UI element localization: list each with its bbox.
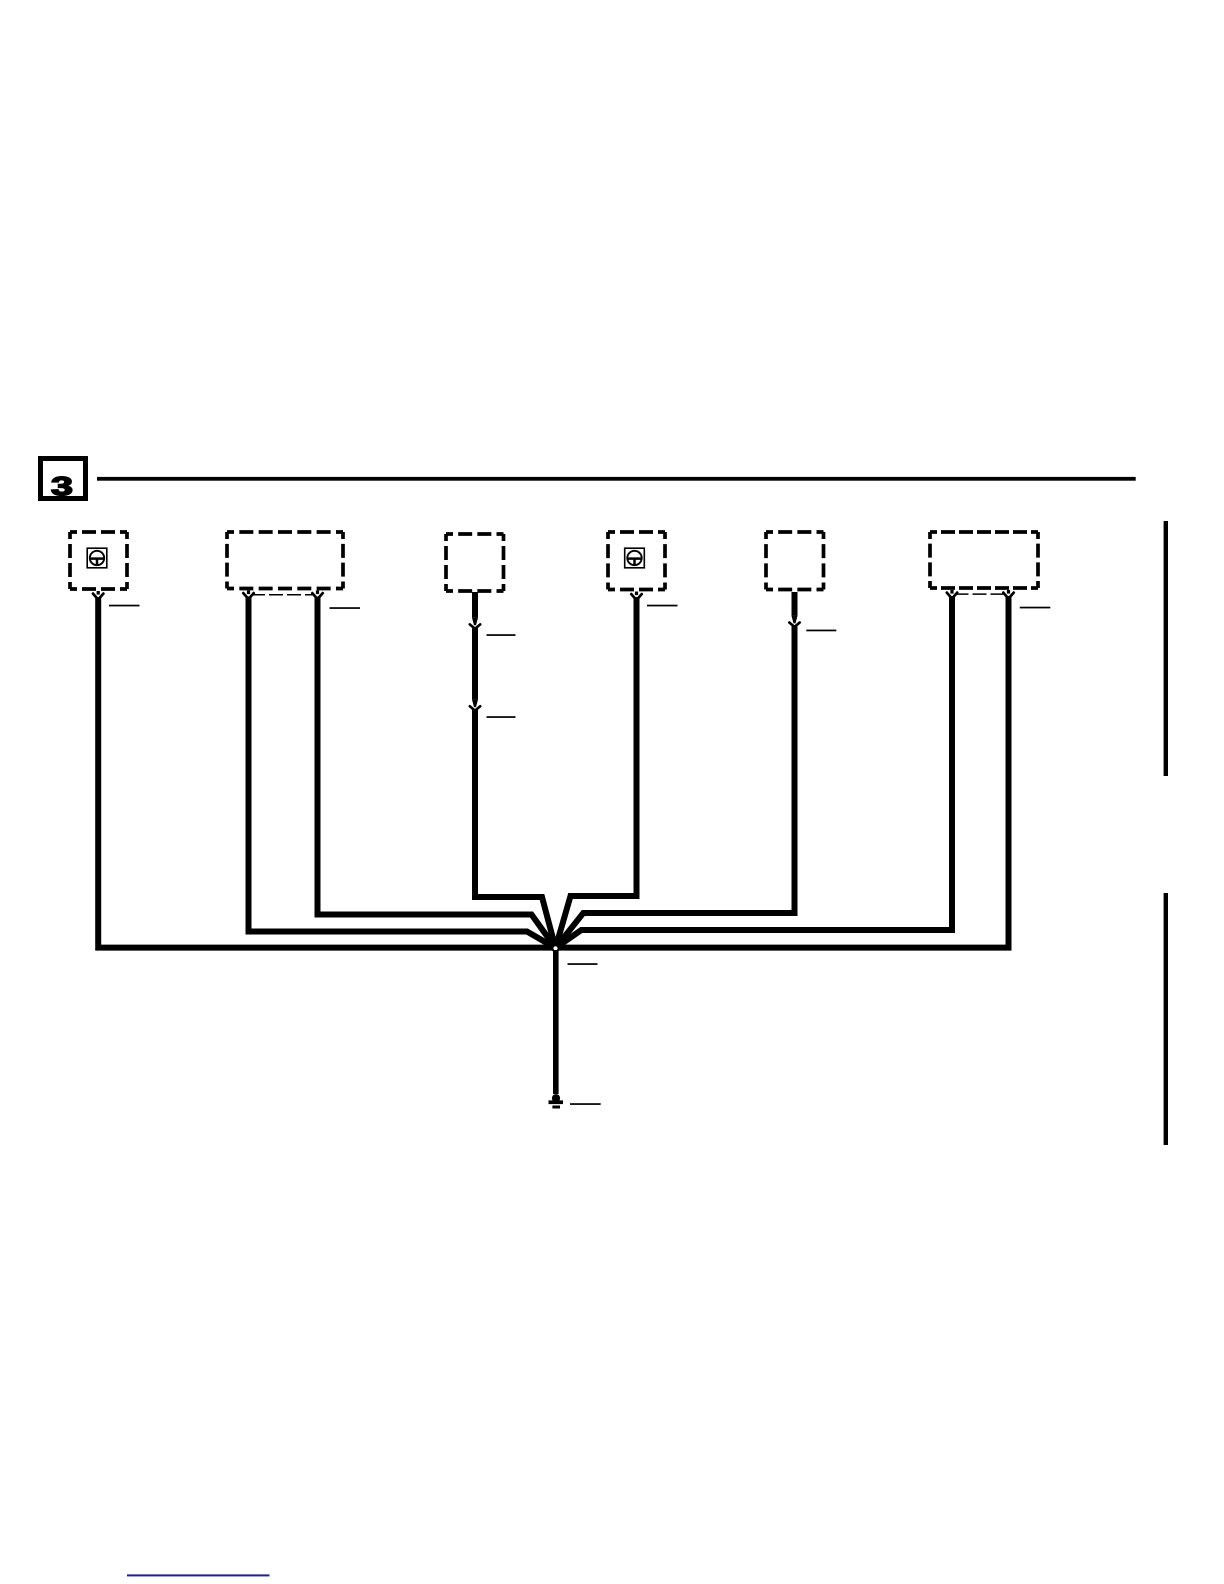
right margin bar upper bbox=[1164, 521, 1168, 776]
wire B5 upper segment bbox=[792, 592, 798, 616]
label at ground bbox=[570, 1103, 601, 1105]
wire B3 lower segment to junction bbox=[475, 710, 556, 948]
wire B6 right pin to junction bbox=[556, 596, 1009, 948]
section marker box 3 bbox=[41, 459, 86, 502]
wire junction to ground bbox=[553, 950, 559, 1094]
connector arrow at B6 left pin bbox=[947, 590, 957, 599]
wire B4 to junction bbox=[556, 597, 637, 948]
inline connector on B5 wire bbox=[789, 616, 799, 627]
label at inline connector 2 bbox=[487, 716, 516, 718]
inline connector 1 on B3 wire bbox=[470, 618, 480, 629]
connector link dashed line under B6 bbox=[955, 593, 1007, 595]
label at B4 wire bbox=[647, 605, 678, 607]
wire B2 right pin to junction bbox=[318, 597, 556, 949]
label at junction node bbox=[568, 963, 598, 965]
wire B5 lower segment to junction bbox=[556, 626, 795, 948]
label at B1 wire bbox=[109, 605, 140, 607]
steering column icon in B1 bbox=[87, 548, 107, 568]
footer hyperlink rule bbox=[127, 1574, 270, 1576]
label at B6 wire bbox=[1020, 607, 1051, 609]
connector arrow at B4 pin bbox=[631, 592, 641, 601]
wire B3 upper segment bbox=[472, 592, 478, 618]
ground junction node bbox=[551, 944, 560, 953]
component box B6 (dashed) bbox=[930, 532, 1038, 588]
component box B1 (dashed) bbox=[70, 532, 127, 589]
wire B3 middle segment bbox=[472, 628, 478, 699]
label at B5 inline connector bbox=[806, 630, 836, 632]
wire B1 to ground junction bbox=[98, 597, 555, 948]
connector link dashed line under B2 bbox=[251, 594, 315, 596]
component box B2 (dashed) bbox=[227, 532, 343, 589]
connector arrow at B2 left pin bbox=[243, 591, 253, 600]
svg-text:3: 3 bbox=[51, 472, 73, 501]
inline connector 2 on B3 wire bbox=[470, 700, 480, 711]
top horizontal rule bbox=[97, 477, 1136, 481]
steering column icon in B4 bbox=[625, 548, 645, 568]
component box B5 (dashed) bbox=[766, 532, 824, 590]
label at B2 wire bbox=[330, 607, 361, 609]
connector arrow at B6 right pin bbox=[1003, 590, 1013, 599]
label at inline connector 1 bbox=[487, 634, 516, 636]
right margin bar lower bbox=[1164, 893, 1168, 1145]
wire B6 left pin to junction bbox=[556, 596, 953, 948]
component box B3 (dashed) bbox=[446, 534, 504, 591]
wire B2 left pin to junction bbox=[249, 597, 556, 949]
component box B4 (dashed) bbox=[608, 532, 665, 590]
connector arrow at B2 right pin bbox=[312, 591, 322, 600]
ground symbol bbox=[549, 1094, 564, 1108]
connector arrow at B1 pin bbox=[93, 591, 103, 600]
